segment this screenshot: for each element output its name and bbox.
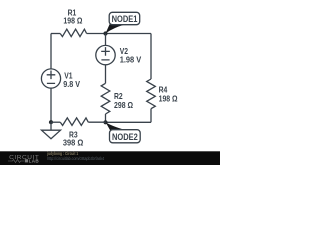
- wire right vertical upper: [150, 34, 152, 80]
- voltage source V1: [41, 69, 60, 88]
- svg-text:398 Ω: 398 Ω: [63, 138, 84, 148]
- svg-text:9.8 V: 9.8 V: [63, 79, 80, 89]
- wire top left segment: [51, 33, 60, 35]
- label R4: [159, 85, 168, 95]
- footer bar: [0, 151, 220, 165]
- label V2 value 1.98 V: [120, 54, 142, 64]
- wire bottom right segment: [106, 121, 152, 123]
- label R3 value 398 Ω: [63, 138, 84, 148]
- label V2: [120, 46, 129, 56]
- label R3: [69, 130, 78, 140]
- wire left vertical lower: [50, 88, 52, 122]
- footer title text: [46, 151, 78, 156]
- ground junction dot: [49, 120, 53, 124]
- svg-text:298 Ω: 298 Ω: [114, 100, 133, 110]
- wire left vertical upper: [50, 34, 52, 69]
- wire R2 bottom stub: [105, 114, 107, 122]
- label R1: [68, 7, 77, 17]
- node NODE2 label box: [110, 130, 141, 143]
- node NODE1 label box: [109, 12, 140, 24]
- node NODE1 junction dot: [103, 31, 107, 35]
- label R1 value 198 Ω: [63, 16, 82, 26]
- resistor R4: [147, 79, 156, 109]
- wire V2 to R2 stub: [105, 65, 107, 84]
- wire right vertical lower: [150, 109, 152, 123]
- resistor R1: [60, 29, 86, 36]
- wire R3 right stub: [88, 121, 105, 123]
- svg-text:NODE2: NODE2: [112, 132, 138, 142]
- voltage source V2: [96, 45, 115, 64]
- wire R3 left stub: [51, 121, 60, 123]
- wire top right segment: [106, 33, 152, 35]
- svg-text:198 Ω: 198 Ω: [159, 94, 178, 104]
- label V1 value 9.8 V: [63, 79, 80, 89]
- label V1: [64, 71, 73, 81]
- footer CircuitLab logo: [8, 155, 39, 163]
- label R4 value 198 Ω: [159, 94, 178, 104]
- resistor R3: [60, 118, 88, 126]
- wire V2 top stub: [105, 34, 107, 46]
- label R2 value 298 Ω: [114, 100, 133, 110]
- wire top middle segment: [87, 33, 106, 35]
- NODE1 callout pointer: [106, 24, 125, 33]
- svg-text:LAB: LAB: [29, 158, 40, 163]
- ground: [42, 122, 61, 139]
- resistor R2: [101, 83, 110, 114]
- NODE2 callout pointer: [106, 123, 126, 132]
- footer url text: [47, 156, 105, 161]
- label R2: [114, 91, 123, 101]
- svg-text:NODE1: NODE1: [112, 14, 138, 24]
- svg-text:1.98 V: 1.98 V: [120, 54, 142, 64]
- node NODE2 junction dot: [103, 120, 107, 124]
- svg-text:198 Ω: 198 Ω: [63, 16, 82, 26]
- svg-text:http://circuitlab.com/c8tapbzb: http://circuitlab.com/c8tapbzbrfask4: [47, 156, 105, 161]
